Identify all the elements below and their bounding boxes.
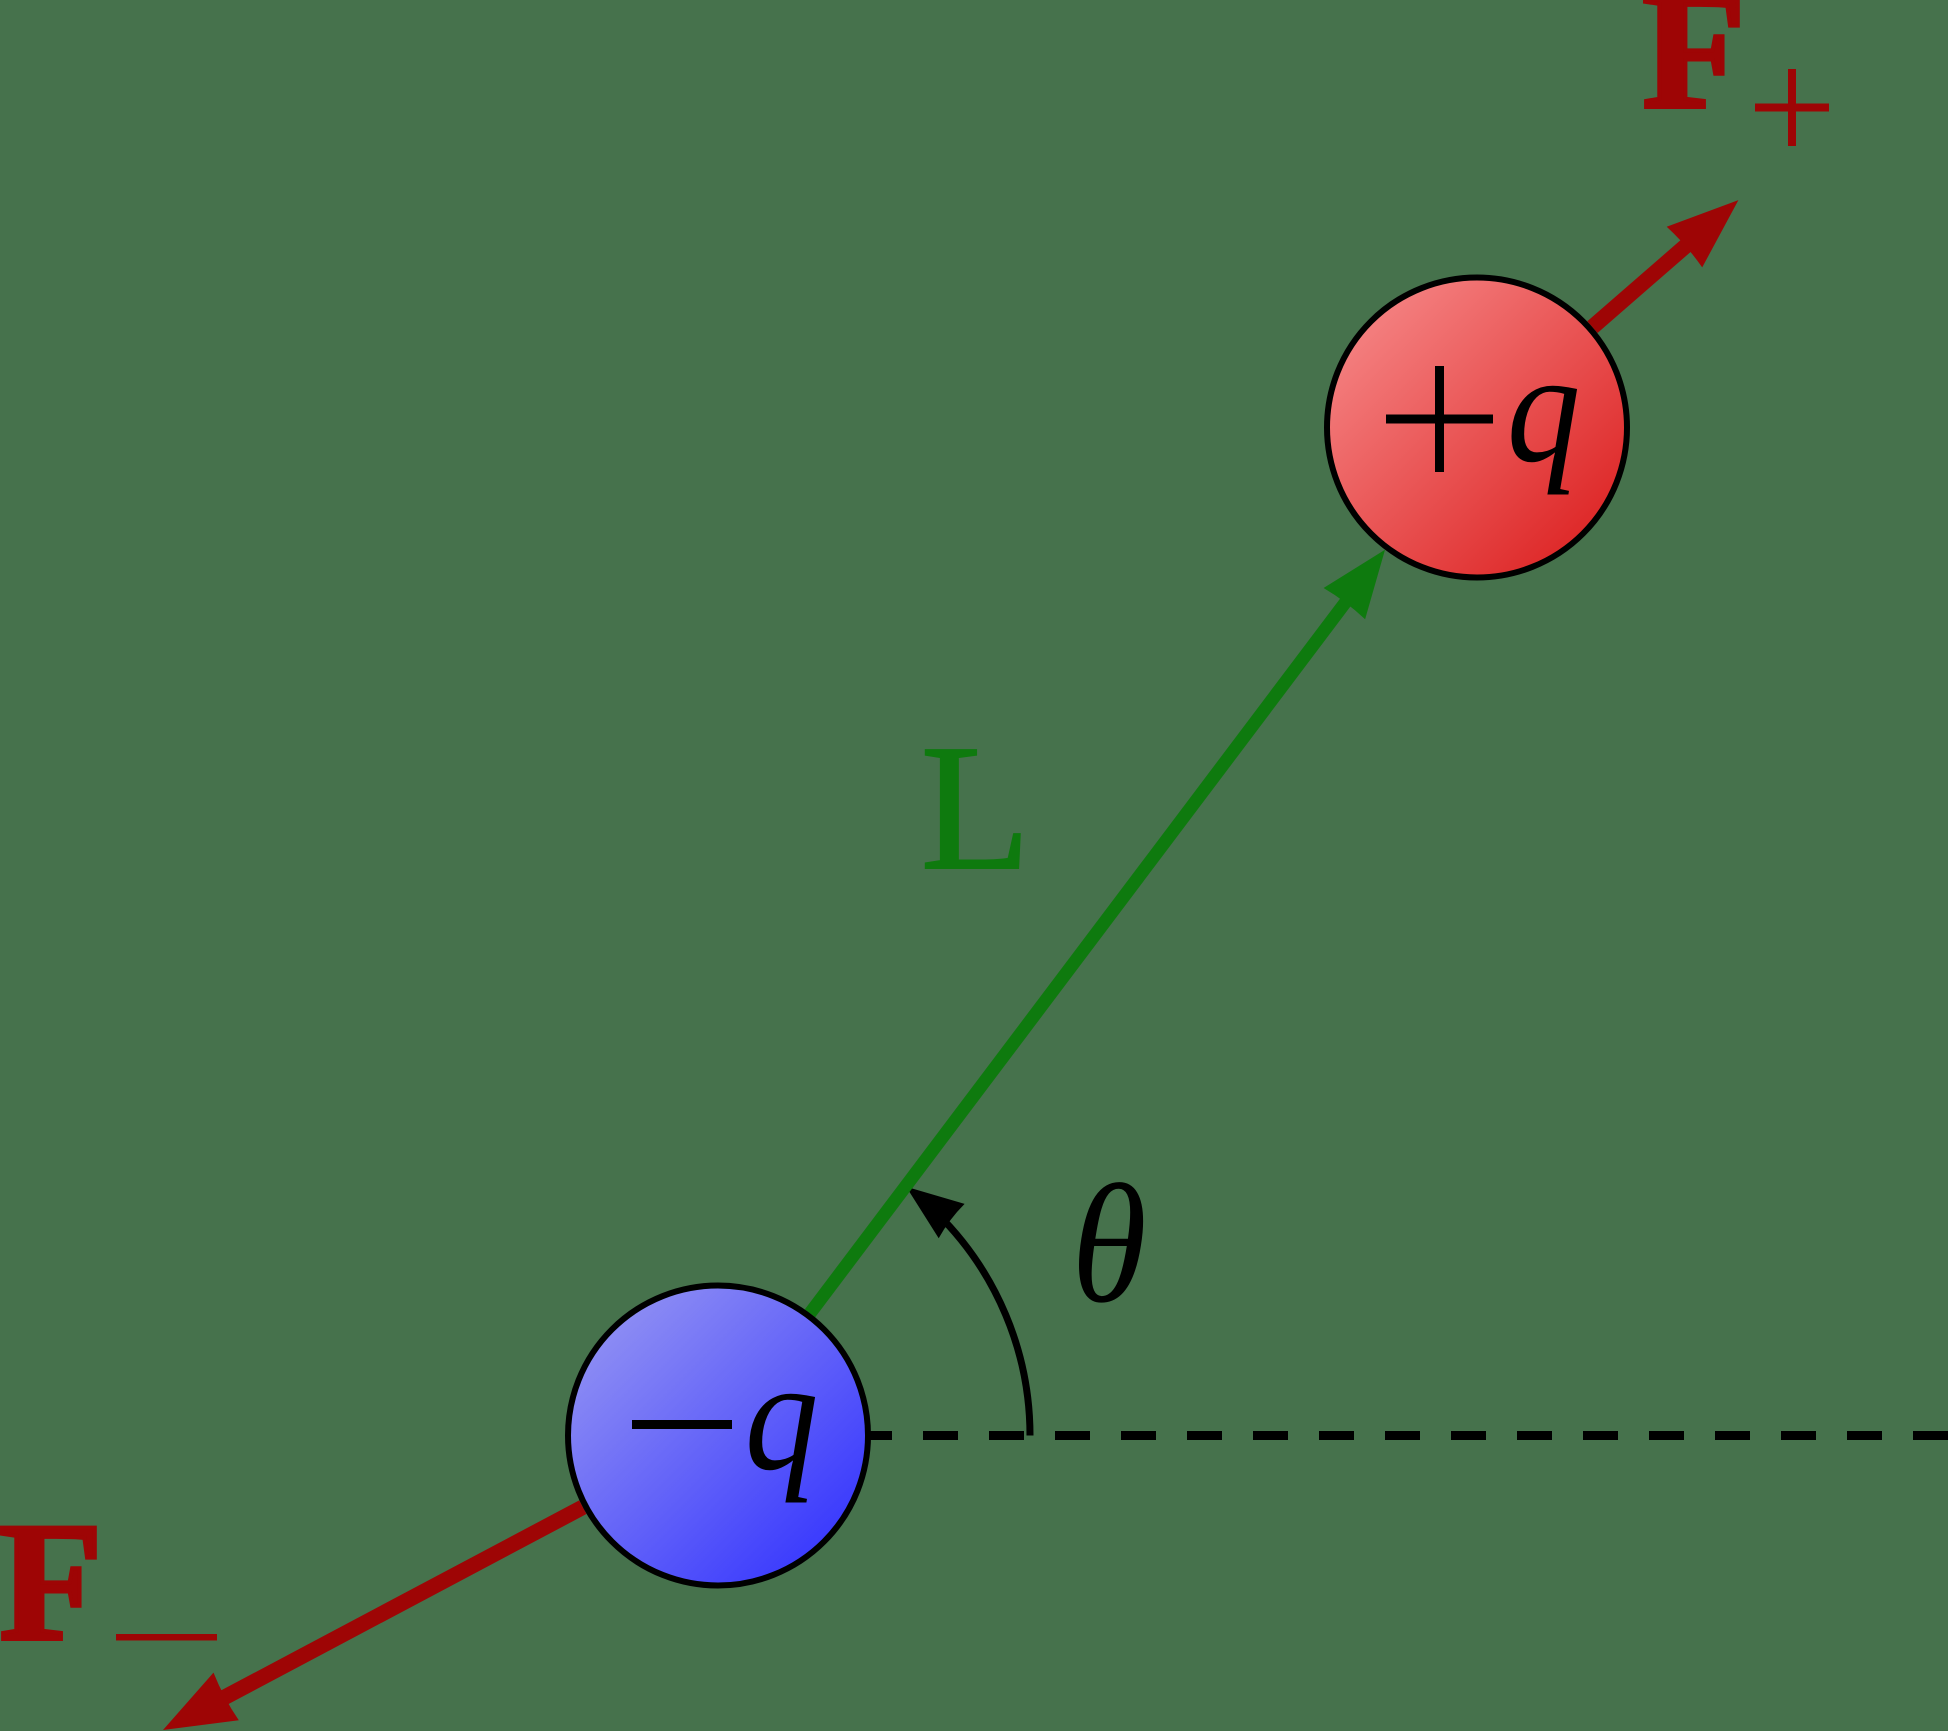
negative charge -q (blue ball) <box>568 1286 868 1586</box>
positive charge +q (red ball) <box>1327 278 1627 578</box>
label F+ : subscript plus <box>1755 104 1829 112</box>
svg-text:θ: θ <box>1072 1150 1147 1338</box>
svg-text:q: q <box>1507 320 1581 496</box>
label F- : subscript minus <box>116 1634 217 1641</box>
svg-text:F: F <box>1642 0 1746 144</box>
force arrow F- shaft <box>223 1507 583 1698</box>
label +q : plus sign <box>1386 415 1493 424</box>
angle arc for theta <box>937 1213 1030 1436</box>
F+ arrowhead <box>1667 200 1739 267</box>
F- arrowhead <box>163 1673 239 1730</box>
label theta <box>1072 1150 1147 1338</box>
arc arrowhead <box>906 1187 964 1239</box>
green arrowhead <box>1324 550 1385 620</box>
label +q : q <box>1507 320 1581 496</box>
dashed horizontal reference line <box>718 1431 1948 1440</box>
label -q : q <box>745 1328 819 1504</box>
dipole separation vector L (green arrow shaft) <box>810 601 1347 1314</box>
svg-text:F: F <box>0 1488 103 1676</box>
svg-text:q: q <box>745 1328 819 1504</box>
svg-text:L: L <box>921 708 1031 907</box>
label -q : minus sign <box>632 1420 732 1429</box>
force arrow F+ shaft <box>1592 244 1687 327</box>
